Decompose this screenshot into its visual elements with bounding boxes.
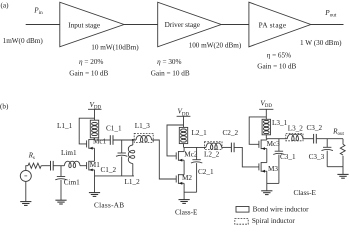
svg-text:PA stage: PA stage [259,22,287,30]
svg-text:η = 65%: η = 65% [267,52,291,60]
capacitor C3_2 [314,134,317,144]
transistor M3 [259,162,267,173]
svg-text:Class-E: Class-E [175,208,198,216]
svg-text:L2_2: L2_2 [204,150,220,158]
svg-text:η = 30%: η = 30% [157,58,181,66]
wire drain node to L2_2 [184,146,207,148]
ground under M2 [179,200,190,204]
transistor Mc1 [87,139,95,150]
wire tank bottom [95,175,135,177]
transistor M2 [176,174,184,185]
inductor L2_1 bond wire [179,127,187,143]
wire A1 to A2 [124,24,158,26]
ground under Rout [337,174,348,178]
svg-text:Input stage: Input stage [68,21,100,29]
wire cascode Mc1-M1 [94,148,96,161]
svg-text:Gain = 10 dB: Gain = 10 dB [69,70,108,78]
wire output [311,24,344,26]
svg-text:Mc3: Mc3 [267,140,281,148]
svg-text:Class-E: Class-E [294,189,317,197]
wire M3 source to C3_1 bottom [267,182,279,184]
svg-text:Bond wire inductor: Bond wire inductor [253,205,309,213]
wire L3_2 to C3_2 [303,138,314,140]
transistor M1 [87,161,95,172]
svg-text:Gain = 10 dB: Gain = 10 dB [257,63,296,71]
svg-text:1 W (30 dBm): 1 W (30 dBm) [300,39,342,47]
amplifier A3 PA stage [249,2,311,47]
wire capacitor to Lim1 [53,165,64,167]
svg-text:C3_1: C3_1 [280,153,296,161]
capacitor C2_1 [196,147,198,159]
svg-text:C1_1: C1_1 [106,125,122,133]
inductor L1_1 bond wire [90,120,98,138]
resistor Rout [342,139,344,145]
wire M2 source to ground [183,183,185,199]
legend spiral inductor [235,219,248,225]
wire source to resistor [26,166,28,171]
wire C3_3 bottom to Rout bottom [327,166,343,168]
ground under Cim1 [55,200,66,204]
wire cascode Mc2-M2 [183,160,185,175]
wire cascode Mc3-M3 [266,149,268,163]
capacitor C3_1 [278,139,280,151]
wire L1_3 to stage2 gate [152,140,177,179]
node junction L1_2 [132,139,134,141]
svg-text:Spiral inductor: Spiral inductor [252,217,296,225]
capacitor C1_2 [121,140,123,153]
wire C1_1 to L1_3 [113,139,136,141]
svg-text:L1_2: L1_2 [125,178,141,186]
svg-text:Rout: Rout [332,127,344,137]
svg-text:Pout: Pout [324,9,337,19]
wire resistor to capacitor [41,165,50,167]
svg-text:(b): (b) [0,102,9,110]
svg-text:C2_1: C2_1 [198,168,214,176]
transistor Mc2 [176,151,184,162]
svg-text:(a): (a) [1,1,10,9]
svg-text:Rs: Rs [28,152,35,161]
wire L1_1 to drain node [94,138,96,140]
svg-text:Mc1: Mc1 [93,138,107,146]
svg-text:C3_2: C3_2 [307,124,323,132]
svg-text:M2: M2 [182,174,192,182]
capacitor input dc block [51,161,54,171]
svg-text:M3: M3 [268,165,278,173]
svg-text:10 mW(10dBm): 10 mW(10dBm) [91,44,139,52]
svg-text:L3_1: L3_1 [272,119,288,127]
svg-text:VDD: VDD [260,99,272,109]
inductor L2_2 spiral [204,142,222,150]
wire Mc3 gate bias [249,117,266,144]
wire L2_1 to drain node [183,144,185,148]
resistor Rs [28,163,41,168]
svg-text:C2_2: C2_2 [223,129,239,137]
svg-text:Lim1: Lim1 [61,149,77,157]
ground under source [20,202,31,206]
wire A2 to A3 [221,24,249,26]
svg-text:L1_3: L1_3 [135,122,151,130]
inductor L1_3 spiral [134,133,153,142]
wire C2_2 to stage3 gate [234,147,259,167]
svg-text:100 mW(20 dBm): 100 mW(20 dBm) [189,42,242,50]
svg-text:η = 20%: η = 20% [79,58,103,66]
ground under M3 [261,191,272,195]
svg-text:Driver stage: Driver stage [165,21,200,29]
wire drain node to L3_2 [266,138,287,140]
wire Mc2 gate bias [167,125,184,156]
wire input to stage 1 [26,24,60,26]
capacitor C1_1 [110,135,113,145]
capacitor C3_3 [326,139,328,147]
svg-text:Gain = 10 dB: Gain = 10 dB [151,70,190,78]
wire Lim1 to M1 gate [80,165,87,167]
svg-text:Pin: Pin [33,7,43,17]
svg-text:Cim1: Cim1 [64,178,80,186]
svg-text:M1: M1 [90,161,100,169]
legend bond wire inductor [236,207,249,213]
inductor Lim1 [64,161,80,167]
ground under M1 [89,193,100,197]
transistor Mc3 [259,140,267,151]
amplifier A1 input stage [60,2,124,47]
wire source to ground [25,181,27,201]
wire L3_1 to drain node [265,135,267,139]
wire M2 source to C2_1 bottom [184,191,197,193]
inductor L3_1 bond wire [262,119,270,135]
capacitor Cim1 [60,166,62,177]
wire M1 source to ground [94,170,96,193]
svg-text:Mc2: Mc2 [184,151,198,159]
inductor L1_2 [132,140,134,145]
svg-text:L1_1: L1_1 [57,122,73,130]
amplifier A2 driver stage [158,2,222,47]
svg-text:C3_3: C3_3 [309,153,325,161]
wire C3_2 to Rout [316,138,343,140]
wire Mc2 drain to node [183,147,185,151]
wire L2_2 to C2_2 [222,146,232,148]
svg-text:L2_1: L2_1 [192,129,208,137]
capacitor C2_2 [231,143,234,153]
svg-text:C1_2: C1_2 [101,166,117,174]
wire Mc1 gate bias [79,118,94,144]
wire Mc3 drain to node [266,139,268,140]
svg-text:L3_2: L3_2 [288,125,304,133]
wire M3 source to ground [266,171,268,191]
wire drain node to C1_1 [95,139,111,141]
source V1 [20,170,31,181]
svg-text:Class-AB: Class-AB [94,201,124,209]
svg-text:1mW(0 dBm): 1mW(0 dBm) [3,37,44,45]
inductor L3_2 spiral [286,133,303,140]
